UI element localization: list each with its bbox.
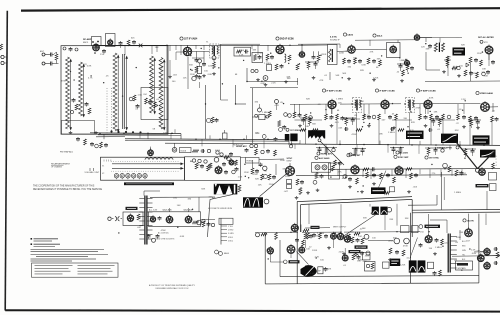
svg-text:1.5K: 1.5K — [100, 54, 105, 56]
wire V1 step — [219, 44, 260, 45]
sound takeoff core — [332, 49, 333, 62]
svg-text:.22: .22 — [456, 123, 460, 125]
cap power 1 — [159, 216, 161, 218]
wire sound bottom — [297, 78, 299, 85]
svg-text:6T8: 6T8 — [484, 42, 488, 44]
svg-text:330: 330 — [254, 101, 258, 103]
svg-text:33K: 33K — [252, 50, 256, 52]
svg-text:2: 2 — [496, 159, 497, 161]
components IF mid row — [300, 129, 306, 132]
tube V13 IF amplifier — [424, 100, 432, 108]
components IF row c — [419, 114, 422, 120]
sprinkle sound band 2 — [342, 77, 343, 78]
box bypass 2nd IF — [252, 53, 263, 63]
svg-text:6.8K: 6.8K — [261, 83, 266, 85]
wire sync top — [241, 157, 246, 159]
svg-text:.01: .01 — [459, 109, 463, 111]
svg-text:HORIZ OUT: HORIZ OUT — [233, 145, 244, 147]
label video peak — [476, 184, 489, 187]
flyback transformer — [448, 234, 449, 273]
wire IF row plate line — [290, 103, 327, 105]
wire limiter bottom — [425, 80, 500, 83]
sweep box top line B — [301, 199, 412, 204]
svg-text:120K: 120K — [373, 78, 379, 80]
svg-text:82K: 82K — [212, 197, 216, 199]
wire audio bottom b — [265, 283, 479, 284]
svg-text:120K: 120K — [208, 66, 214, 68]
wire diagonal to sync — [260, 170, 292, 197]
svg-text:IF AMP 4 6CB6: IF AMP 4 6CB6 — [420, 90, 436, 93]
svg-text:6.8K: 6.8K — [472, 253, 477, 255]
svg-text:220K: 220K — [339, 53, 345, 55]
svg-text:.05: .05 — [391, 113, 395, 115]
HV box left line — [411, 199, 413, 237]
svg-text:2.2K: 2.2K — [239, 54, 244, 56]
tube V38 right column b — [484, 263, 491, 270]
circle right of vert trafo — [387, 207, 392, 212]
ground sync row — [373, 182, 375, 184]
svg-text:V2: V2 — [102, 173, 104, 175]
svg-text:10K: 10K — [306, 248, 310, 250]
svg-text:6.8K: 6.8K — [180, 236, 185, 238]
label V1 1st IF — [180, 37, 183, 40]
box tube label — [180, 148, 192, 153]
test point circle — [214, 158, 219, 163]
svg-text:.047: .047 — [137, 227, 142, 229]
capacitor C10 — [196, 58, 198, 60]
notes para 2 — [31, 253, 109, 255]
resistor R20 in box — [254, 55, 257, 61]
antenna input terminals — [42, 53, 45, 56]
layout arrow line 2 — [112, 167, 184, 169]
ground sound 1 — [313, 76, 315, 78]
svg-text:.05: .05 — [426, 228, 430, 230]
svg-text:82K: 82K — [360, 70, 364, 72]
svg-text:56K: 56K — [342, 73, 346, 75]
yoke plug pattern — [214, 184, 238, 195]
svg-text:68: 68 — [264, 171, 267, 173]
svg-text:6CD6: 6CD6 — [181, 150, 187, 152]
components sync row c — [406, 168, 412, 171]
svg-text:VOLUME CONT: VOLUME CONT — [85, 172, 100, 174]
svg-text:1 MEG: 1 MEG — [454, 192, 461, 194]
svg-text:1ST IF 6AB4: 1ST IF 6AB4 — [184, 38, 198, 41]
wire long vertical B — [235, 85, 237, 104]
resistor R1 — [55, 54, 58, 60]
ground sync — [296, 196, 298, 198]
tube V35 HV rect — [465, 229, 473, 237]
label B+ bus — [396, 151, 399, 154]
svg-text:18K: 18K — [155, 47, 159, 49]
wire drops from tuner top wire — [97, 45, 99, 49]
audio box left edge — [264, 232, 266, 284]
components AGC — [315, 173, 318, 179]
cluster mid components — [207, 119, 211, 123]
svg-text:4.7K: 4.7K — [88, 77, 93, 79]
svg-text:1 MEG: 1 MEG — [435, 247, 442, 249]
audio top row comps — [256, 233, 260, 237]
sweep box corner riser — [436, 195, 438, 205]
wire damper row — [452, 255, 500, 258]
svg-text:12K: 12K — [298, 190, 302, 192]
caps right edge — [494, 248, 496, 250]
tube V40 audio drv — [287, 245, 295, 253]
svg-text:47K: 47K — [369, 51, 373, 53]
fuse box — [123, 212, 143, 226]
components near focus — [434, 271, 436, 273]
wire sweep internal — [300, 225, 302, 233]
svg-text:82K: 82K — [327, 268, 331, 270]
svg-text:6AQ5 AUD: 6AQ5 AUD — [163, 209, 173, 212]
svg-text:1 YEL: 1 YEL — [228, 226, 233, 228]
svg-text:4: 4 — [496, 165, 497, 167]
svg-text:18K: 18K — [305, 126, 309, 128]
ratio det transformer core — [439, 43, 440, 53]
wire 2nd IF bottom — [246, 68, 248, 82]
tube V33 vert out b — [344, 236, 351, 243]
capacitor C12 mid — [223, 133, 228, 139]
ground symbols extra — [307, 191, 309, 193]
svg-text:DESIGNED ESPECIALLY FOR YOU: DESIGNED ESPECIALLY FOR YOU — [156, 287, 189, 290]
tube V37 right column a — [484, 249, 491, 256]
label V2 2nd IF — [276, 37, 279, 40]
resistor R30 — [317, 55, 320, 61]
components vert lin — [355, 250, 358, 256]
svg-text:56K: 56K — [312, 123, 316, 125]
box right of focus coil — [428, 262, 434, 269]
wire small cluster — [150, 147, 152, 150]
resistor R31 — [296, 64, 299, 70]
svg-text:.01: .01 — [135, 108, 139, 110]
resistor R21 — [288, 55, 291, 61]
sync sub box — [185, 157, 241, 181]
box sound takeoff small — [234, 47, 251, 56]
svg-text:B+ 255V: B+ 255V — [400, 153, 409, 155]
tuner inner sub box — [141, 88, 168, 120]
svg-text:82K: 82K — [461, 45, 465, 47]
svg-text:1: 1 — [496, 156, 497, 158]
stacked caps sync — [287, 180, 292, 184]
svg-text:33K: 33K — [377, 58, 381, 60]
diode D1 — [466, 63, 469, 67]
svg-text:1ST SYNC: 1ST SYNC — [429, 158, 440, 160]
components under bus row2 — [316, 147, 337, 149]
svg-text:470K: 470K — [61, 80, 67, 82]
components IF row b — [363, 114, 366, 120]
resistors audio det out — [402, 70, 405, 76]
capacitor C11 — [203, 62, 205, 64]
page edge clipped parts — [1, 55, 4, 58]
sprinkle tuner labels — [73, 79, 74, 80]
IF transformer T5 can — [406, 98, 415, 113]
svg-text:FM TRAP ADJ: FM TRAP ADJ — [60, 151, 73, 154]
peaking coil L20 — [285, 54, 286, 62]
tube V19b right of box — [197, 220, 202, 225]
svg-text:56K: 56K — [335, 75, 339, 77]
wire IF row gnds — [331, 124, 333, 126]
wire right column — [479, 254, 500, 256]
wire sync row — [328, 168, 500, 171]
wire video to CRT — [490, 106, 499, 108]
tube V27 sync sep — [395, 167, 403, 175]
speaker terminal box — [318, 267, 323, 274]
tube V4 cathode circle — [263, 76, 268, 81]
components IF row left — [293, 112, 296, 118]
tube V20 phase det — [215, 167, 222, 174]
svg-text:82K: 82K — [455, 130, 459, 132]
svg-text:470K: 470K — [161, 230, 167, 232]
wire sub-bus drops — [139, 133, 141, 138]
tube V6 sound IF amp — [348, 46, 356, 54]
tube V17 audio output 1 — [166, 216, 173, 223]
tube V25 in AGC box a — [315, 165, 320, 170]
trimmer capacitor C3 — [63, 47, 66, 50]
svg-text:68: 68 — [376, 67, 379, 69]
tuner mid comps c — [129, 97, 133, 101]
svg-text:100: 100 — [320, 259, 324, 261]
sound section box edge — [220, 44, 222, 100]
svg-text:4 CONTACTS UNDER DRUM: 4 CONTACTS UNDER DRUM — [208, 207, 233, 210]
balun coil L1 — [66, 57, 70, 129]
components sweep right — [394, 238, 400, 244]
tuner inner box comps — [145, 98, 148, 104]
sprinkle HV labels — [442, 246, 443, 247]
svg-text:6J6: 6J6 — [131, 38, 135, 40]
svg-text:.001: .001 — [358, 236, 363, 238]
svg-text:1 MEG: 1 MEG — [262, 112, 269, 114]
audio out box — [149, 212, 201, 227]
top band extra comps — [305, 61, 319, 63]
top band grounds — [257, 78, 259, 80]
sweep box top line A — [297, 197, 412, 202]
svg-text:270: 270 — [196, 165, 200, 167]
label vert lin — [355, 245, 368, 248]
components sync c — [296, 179, 299, 185]
svg-text:220K: 220K — [285, 176, 291, 178]
svg-text:47K: 47K — [319, 80, 323, 82]
oscillator coil L3 — [113, 53, 117, 131]
black label horiz drive — [371, 187, 386, 194]
resistor next to yoke plug — [238, 185, 241, 192]
svg-text:1 MEG: 1 MEG — [336, 98, 343, 100]
tube V34 horiz out — [425, 236, 432, 243]
capacitor C1A — [49, 54, 51, 56]
ground AGC — [317, 189, 319, 191]
label IF amp stage 2 — [322, 89, 325, 92]
wire yoke plug lead — [208, 194, 234, 237]
top tuner comps — [120, 41, 122, 43]
wire diag to horiz drive — [378, 171, 387, 190]
black label ion trap jagged — [308, 130, 325, 138]
ground 2nd IF — [265, 83, 267, 85]
svg-text:4 BLK: 4 BLK — [228, 237, 234, 239]
svg-text:470K: 470K — [415, 108, 421, 110]
wire bus step 2 — [288, 140, 290, 144]
resistor R51 — [193, 221, 199, 224]
svg-text:.01: .01 — [156, 99, 160, 101]
wire audio diag — [297, 252, 309, 265]
svg-text:220K: 220K — [456, 237, 462, 239]
wire noise vertical — [425, 52, 427, 70]
label IF amp stage 3 — [375, 89, 378, 92]
wire sound rows — [290, 44, 328, 46]
resistor R5 tuner bottom — [84, 139, 87, 145]
tube V30 vert osc — [291, 224, 298, 231]
svg-text:120K: 120K — [244, 172, 250, 174]
tube V5 sound IF — [299, 52, 305, 58]
wire HV links — [468, 214, 470, 229]
svg-text:RED: RED — [462, 246, 466, 248]
tube V32 vert out a — [337, 233, 344, 240]
label ratio det — [349, 250, 361, 253]
wire sound box top — [298, 43, 340, 45]
svg-text:WIDTH: WIDTH — [458, 268, 465, 270]
svg-text:68: 68 — [329, 118, 332, 120]
capacitor C6 tuner bottom — [77, 137, 79, 139]
svg-text:.01: .01 — [343, 265, 347, 267]
resistor R50 — [137, 214, 140, 220]
wire top audio — [255, 231, 298, 233]
capacitor C1B — [49, 63, 51, 65]
sweep box left line B — [299, 204, 301, 232]
svg-text:.05: .05 — [455, 242, 459, 244]
tube below T3 can — [212, 56, 216, 60]
wire sync verticals 2 — [337, 169, 339, 176]
label horiz lock box — [246, 158, 260, 164]
oscillator coil L4 — [122, 54, 124, 129]
wire diag video to tube — [321, 142, 345, 166]
svg-text:.047: .047 — [465, 241, 470, 243]
mid cluster comps a — [275, 100, 279, 104]
svg-text:82K: 82K — [410, 130, 414, 132]
svg-text:SOUND IF: SOUND IF — [330, 39, 340, 41]
svg-text:1 MEG: 1 MEG — [399, 60, 406, 62]
svg-text:2ND IF 6CB6: 2ND IF 6CB6 — [280, 39, 295, 41]
svg-text:68: 68 — [235, 74, 238, 76]
wire B+ bus seg A2 — [98, 134, 181, 137]
svg-text:1.5K: 1.5K — [138, 95, 143, 97]
resistor R22 — [275, 64, 278, 70]
ground tuner 2 — [95, 131, 97, 133]
ground sound 2 — [348, 77, 350, 79]
svg-text:GRN: GRN — [462, 250, 467, 252]
svg-text:.01: .01 — [324, 75, 328, 77]
svg-text:220K: 220K — [473, 73, 479, 75]
svg-text:3 GRN: 3 GRN — [228, 233, 234, 235]
speaker — [301, 266, 306, 276]
components ratio det — [352, 254, 355, 260]
components vert osc b — [296, 238, 298, 240]
sprinkle bottom band — [461, 269, 462, 270]
resistor R10 — [195, 66, 198, 73]
tube V2 mixer — [108, 40, 113, 45]
svg-text:330: 330 — [159, 68, 163, 70]
ground IF1 — [196, 74, 198, 76]
label audio out spk — [284, 260, 288, 264]
components sync a — [251, 168, 254, 174]
audio det label — [373, 34, 376, 37]
wire power top — [150, 196, 215, 198]
AGC box — [312, 163, 331, 173]
svg-text:4.5 MC: 4.5 MC — [330, 36, 337, 39]
svg-text:100: 100 — [137, 217, 141, 219]
svg-text:330: 330 — [347, 67, 351, 69]
svg-text:33K: 33K — [287, 78, 291, 80]
notes bullet a — [31, 238, 33, 240]
wire audio internal — [269, 254, 271, 262]
svg-text:82K: 82K — [306, 99, 310, 101]
tuner enclosure box — [61, 46, 168, 135]
tube V15 small — [148, 150, 154, 156]
svg-text:47K: 47K — [363, 261, 367, 263]
mixer box — [106, 34, 116, 47]
svg-text:470K: 470K — [403, 245, 409, 247]
svg-text:56K: 56K — [427, 105, 431, 107]
capacitor C7 tuner bottom — [91, 142, 93, 144]
bus components row — [246, 148, 248, 150]
tube socket row — [114, 174, 118, 178]
svg-text:6.8K: 6.8K — [208, 74, 213, 76]
svg-text:1ST VIDEO: 1ST VIDEO — [290, 130, 301, 132]
components strip right 1 — [195, 163, 198, 169]
IF transformer T4 can — [353, 98, 362, 113]
mixer coil L6 — [159, 58, 163, 130]
tube V28 clip — [443, 163, 448, 168]
ground tuner 1 — [70, 131, 72, 133]
svg-text:6CU6: 6CU6 — [215, 150, 221, 152]
test point TP1 — [251, 69, 254, 72]
waveform photo 3 — [243, 197, 263, 207]
wire B+ bus seg B3 — [165, 142, 300, 145]
svg-text:47K: 47K — [83, 64, 87, 66]
svg-text:330: 330 — [403, 118, 407, 120]
V wire left — [457, 143, 478, 169]
svg-text:1 MEG: 1 MEG — [388, 132, 395, 134]
mid cluster comps b — [262, 135, 266, 139]
svg-text:100: 100 — [173, 198, 177, 200]
svg-text:IF AMP 3 6CB6: IF AMP 3 6CB6 — [379, 90, 395, 93]
svg-text:120K: 120K — [400, 264, 406, 266]
tuner bottom lip — [62, 121, 95, 135]
svg-text:T1: T1 — [206, 42, 209, 44]
components sync b — [268, 174, 271, 180]
svg-text:.01: .01 — [437, 129, 441, 131]
junction dots bus — [99, 132, 101, 134]
tube V9 top small — [414, 35, 420, 41]
shield box RF amp — [92, 37, 102, 46]
svg-text:OSC: OSC — [143, 94, 148, 96]
crystal X1 mark — [139, 44, 143, 48]
svg-text:6AU6: 6AU6 — [347, 34, 353, 37]
svg-text:150: 150 — [428, 248, 432, 250]
svg-text:330: 330 — [187, 198, 191, 200]
capacitor C23 — [281, 64, 283, 66]
svg-text:RE-ARRANGEMENT: RE-ARRANGEMENT — [51, 163, 71, 166]
svg-text:2 AND 6 PIN SOCKETS: 2 AND 6 PIN SOCKETS — [155, 238, 175, 241]
focus coil — [409, 260, 417, 272]
mixer coil L5 — [150, 56, 154, 113]
noise control black label — [453, 48, 466, 56]
label width coil box — [456, 261, 473, 270]
svg-text:68: 68 — [337, 110, 340, 112]
svg-text:YEL: YEL — [462, 255, 465, 257]
tube layout box — [101, 157, 185, 180]
svg-text:82K: 82K — [353, 58, 357, 60]
components clip a — [448, 166, 451, 172]
svg-text:56K: 56K — [316, 236, 320, 238]
tube V24 near waveform — [264, 199, 269, 204]
components IF row a — [325, 114, 328, 120]
